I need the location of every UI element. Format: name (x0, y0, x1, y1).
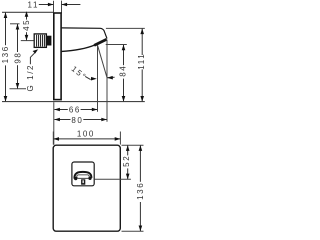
wire: extension line right of plate top (front view) (122, 144, 144, 146)
wire: extension line right of plate bottom (front view) (122, 230, 144, 232)
label 15 degrees with leader and opposing arrows (70, 64, 115, 82)
wire: 80 right extension line (from nose tip) (106, 40, 108, 122)
svg-text:136: 136 (1, 45, 10, 63)
node: dimension 84 (119, 45, 128, 102)
svg-text:45: 45 (22, 19, 31, 31)
wire: left extension line below plate (common for 66/80/100) (53, 102, 55, 145)
node: dimension 136 right (front view height) (136, 145, 145, 231)
part: spout profile top edge and nose (62, 28, 108, 39)
part: spout outlet (front) (74, 172, 92, 185)
node: dimension 80 (side view projection) (54, 116, 107, 125)
label G 1/2 with bent leader arrow to thread (26, 49, 38, 91)
wire: bottom extension line of side view (installation level) (2, 101, 145, 103)
svg-text:98: 98 (14, 52, 23, 64)
wire: 84 top extension line (106, 44, 127, 46)
svg-text:G 1/2: G 1/2 (26, 64, 35, 92)
part: wall plate front view (53, 145, 120, 231)
wire: extension line at spout outlet level (front view) (95, 178, 131, 180)
svg-text:66: 66 (69, 106, 81, 115)
node: dimension 52 (122, 145, 131, 179)
svg-text:11: 11 (28, 0, 40, 9)
part: G1/2 threaded nipple (hatched) (34, 34, 46, 48)
node: dimension 136 left (1, 12, 10, 101)
svg-text:136: 136 (136, 182, 145, 200)
node: dimension 66 (54, 106, 97, 115)
part: wall plate side view (54, 13, 61, 100)
svg-text:111: 111 (137, 53, 146, 70)
node: dimension 98 (10, 24, 27, 89)
node: dimension 111 (137, 29, 146, 102)
node: dimension 11 (plate thickness) (28, 0, 81, 13)
node: dimension 100 (front view width) (53, 130, 120, 145)
node: dimension 45 (21, 11, 34, 40)
wire: 66 right extension (vertical reference) (97, 45, 99, 112)
svg-text:80: 80 (71, 116, 83, 125)
svg-text:52: 52 (122, 155, 131, 167)
svg-text:100: 100 (77, 130, 95, 139)
part: spout underside curve (62, 39, 107, 51)
part: spout front view body (72, 162, 94, 186)
svg-text:84: 84 (119, 65, 128, 77)
wire: top-left extension line (plate top level) (2, 11, 54, 13)
wire: 15-degree slanted reference line (98, 45, 108, 77)
wire: 111 top extension line (106, 27, 145, 29)
part: connector nut (solid) (47, 36, 52, 46)
